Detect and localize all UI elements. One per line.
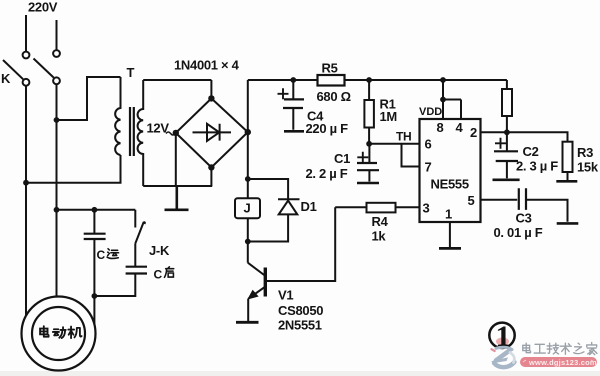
svg-text:8: 8 xyxy=(437,120,444,135)
wire pin5 to C3 xyxy=(481,199,518,201)
wire bridge right vertex riser and drop to relay xyxy=(247,80,249,263)
svg-text:C: C xyxy=(97,248,106,262)
node TH junction xyxy=(366,141,372,147)
wire 220V line N top lead xyxy=(56,20,58,50)
watermark logo swoosh xyxy=(491,347,515,367)
svg-text:T: T xyxy=(127,65,135,80)
wire R3 to ground xyxy=(567,172,569,180)
svg-text:C3: C3 xyxy=(516,211,532,226)
switch K pole1 lower contact xyxy=(23,79,30,86)
svg-text:R3: R3 xyxy=(577,145,593,160)
wire C-rail motor caps xyxy=(57,209,136,211)
node primary return junction xyxy=(23,180,29,186)
wire 220V line L top lead xyxy=(25,15,27,52)
switch K pole2 lower contact xyxy=(53,77,60,84)
op-amp U1 NE555 box xyxy=(420,119,481,222)
svg-text:VDD: VDD xyxy=(419,106,442,118)
node C-yun top junction xyxy=(92,207,98,213)
svg-text:C: C xyxy=(154,268,163,282)
resistor R3 xyxy=(563,142,573,172)
wire bridge bottom vertex drop xyxy=(210,167,212,186)
ground below emitter xyxy=(236,321,259,324)
switch K pole1 blade xyxy=(3,60,23,79)
wire DC rail B xyxy=(248,79,507,81)
svg-text:V1: V1 xyxy=(278,288,293,303)
capacitor C-yun lead xyxy=(93,210,95,234)
svg-text:R4: R4 xyxy=(372,214,389,229)
node C-rail left junction xyxy=(54,207,60,213)
C4 polarity plus xyxy=(278,88,289,99)
svg-text:7: 7 xyxy=(425,160,432,175)
capacitor C-qi plates xyxy=(126,267,147,274)
diode D1 xyxy=(278,199,300,214)
wire bridge left vertex drop xyxy=(175,133,177,186)
watermark red banner xyxy=(520,357,597,367)
node C-yun bottom junction xyxy=(92,293,98,299)
svg-text:www.dgjs123.com: www.dgjs123.com xyxy=(528,358,597,367)
bridge internal diode xyxy=(193,124,232,141)
capacitor C1 leads xyxy=(368,144,370,182)
node C4 rail junction xyxy=(290,77,296,83)
motor M inner circle xyxy=(32,307,85,360)
svg-text:2: 2 xyxy=(470,125,477,140)
wire D1 top branch xyxy=(248,179,288,200)
wire TH node to pin6 xyxy=(369,143,419,145)
ground below pin1 xyxy=(439,247,461,250)
svg-text:3: 3 xyxy=(423,201,430,216)
wire C3 to ground xyxy=(526,200,568,222)
bottom edge band xyxy=(0,371,600,376)
node bridge right vertex xyxy=(245,129,251,135)
svg-text:2. 3 µ F: 2. 3 µ F xyxy=(516,159,558,174)
svg-text:J-K: J-K xyxy=(149,243,170,258)
node bridge bottom vertex xyxy=(208,164,214,170)
wire right vertical from K to motor xyxy=(56,84,58,297)
wire pin2 net xyxy=(481,132,568,141)
C2 polarity plus xyxy=(495,138,506,149)
label motor dian-dong-ji glyphs xyxy=(40,326,49,337)
node VDD loop junction xyxy=(440,97,446,103)
svg-text:R5: R5 xyxy=(322,61,338,76)
wire pin7 jog xyxy=(402,144,420,167)
svg-text:1N4001 × 4: 1N4001 × 4 xyxy=(174,58,240,73)
transistor V1 base bar xyxy=(264,268,267,297)
svg-text:4: 4 xyxy=(456,120,464,135)
capacitor C4 plates xyxy=(283,99,304,108)
resistor R5 xyxy=(318,75,345,86)
wire D1 bottom branch xyxy=(248,215,288,242)
wire VDD riser xyxy=(442,80,444,119)
svg-text:J: J xyxy=(244,201,251,216)
ground below bridge xyxy=(165,186,189,210)
svg-text:NE555: NE555 xyxy=(431,177,469,192)
node relay bottom junction xyxy=(245,239,251,245)
wire collector lead V1 xyxy=(248,263,265,276)
motor M outer circle xyxy=(22,297,96,371)
resistor R6 leads top right xyxy=(506,80,508,132)
label 12V tilde xyxy=(166,132,175,135)
wire primary return xyxy=(26,155,121,183)
svg-text:6: 6 xyxy=(425,137,432,152)
transistor V1 emitter xyxy=(248,287,265,299)
wire J-K drop xyxy=(134,210,136,228)
capacitor C1 plates xyxy=(357,163,379,170)
svg-text:220V: 220V xyxy=(28,0,58,15)
resistor R6 unlabeled xyxy=(502,89,512,116)
resistor R4 xyxy=(335,206,419,208)
svg-text:1k: 1k xyxy=(372,229,387,244)
wire pin8-pin4 loop xyxy=(443,100,461,120)
svg-text:K: K xyxy=(1,71,11,86)
wire secondary bottom to bridge bottom xyxy=(143,185,212,187)
svg-text:1: 1 xyxy=(445,207,452,222)
transformer T primary coil xyxy=(115,77,120,155)
ground below C4 xyxy=(284,130,304,133)
switch K pole2 upper contact xyxy=(53,50,60,57)
node VDD rail junction xyxy=(440,77,446,83)
ground below R3 xyxy=(556,180,577,183)
svg-text:CS8050: CS8050 xyxy=(278,303,323,318)
wire primary tap step xyxy=(57,77,121,120)
svg-text:D1: D1 xyxy=(301,199,317,214)
node bridge top vertex xyxy=(208,95,214,101)
svg-text:5: 5 xyxy=(468,193,475,208)
wire base lead to R4 riser xyxy=(265,207,335,281)
transistor V1 emitter arrow xyxy=(248,291,258,299)
ground below C1 xyxy=(357,182,379,185)
contact J-K blade xyxy=(135,222,145,266)
node pin2 junction xyxy=(504,129,510,135)
capacitor C3 plates xyxy=(519,188,526,210)
svg-text:2N5551: 2N5551 xyxy=(278,318,322,333)
capacitor C2 plates xyxy=(494,151,518,161)
C1 polarity plus xyxy=(357,152,368,163)
svg-text:C2: C2 xyxy=(523,144,539,159)
svg-text:220 µ F: 220 µ F xyxy=(306,121,349,136)
svg-text:1M: 1M xyxy=(380,109,397,124)
watermark text dian-gong-ji-shu-zhi-jia xyxy=(523,343,597,355)
wire left vertical from K to motor xyxy=(25,86,27,317)
wire emitter to ground xyxy=(247,299,249,321)
capacitor C2 leads xyxy=(506,132,508,178)
bridge rectifier 1N4001x4 diamond xyxy=(176,98,248,167)
resistor R1 leads xyxy=(368,80,370,144)
node R1 rail junction xyxy=(366,77,372,83)
svg-text:680 Ω: 680 Ω xyxy=(317,89,351,104)
wire pin1 to ground xyxy=(449,222,451,247)
svg-text:0. 01 µ F: 0. 01 µ F xyxy=(494,225,543,240)
resistor R1 xyxy=(364,100,374,128)
svg-text:2. 2 µ F: 2. 2 µ F xyxy=(306,166,348,181)
capacitor C4 leads xyxy=(292,80,294,130)
node bridge left vertex xyxy=(173,130,179,136)
transformer T secondary coil xyxy=(138,80,144,186)
svg-text:TH: TH xyxy=(396,130,411,144)
node relay top junction xyxy=(245,176,251,182)
relay J coil box xyxy=(235,198,260,218)
switch K pole1 upper contact xyxy=(23,52,30,59)
wire C-qi bottom to node xyxy=(94,274,135,297)
ground below C2 xyxy=(493,179,520,182)
wire C-yun bottom to motor xyxy=(93,239,95,325)
wire rail A secondary top to bridge xyxy=(143,79,211,81)
switch K pole2 blade xyxy=(34,59,54,78)
svg-text:15k: 15k xyxy=(577,160,599,175)
svg-text:C1: C1 xyxy=(334,151,350,166)
transformer T core bars xyxy=(130,107,134,156)
ground below C3 xyxy=(557,222,579,225)
wire bridge top vertex riser xyxy=(210,80,212,98)
capacitor C-yun plates xyxy=(84,234,106,239)
node primary tap junction xyxy=(54,117,60,123)
